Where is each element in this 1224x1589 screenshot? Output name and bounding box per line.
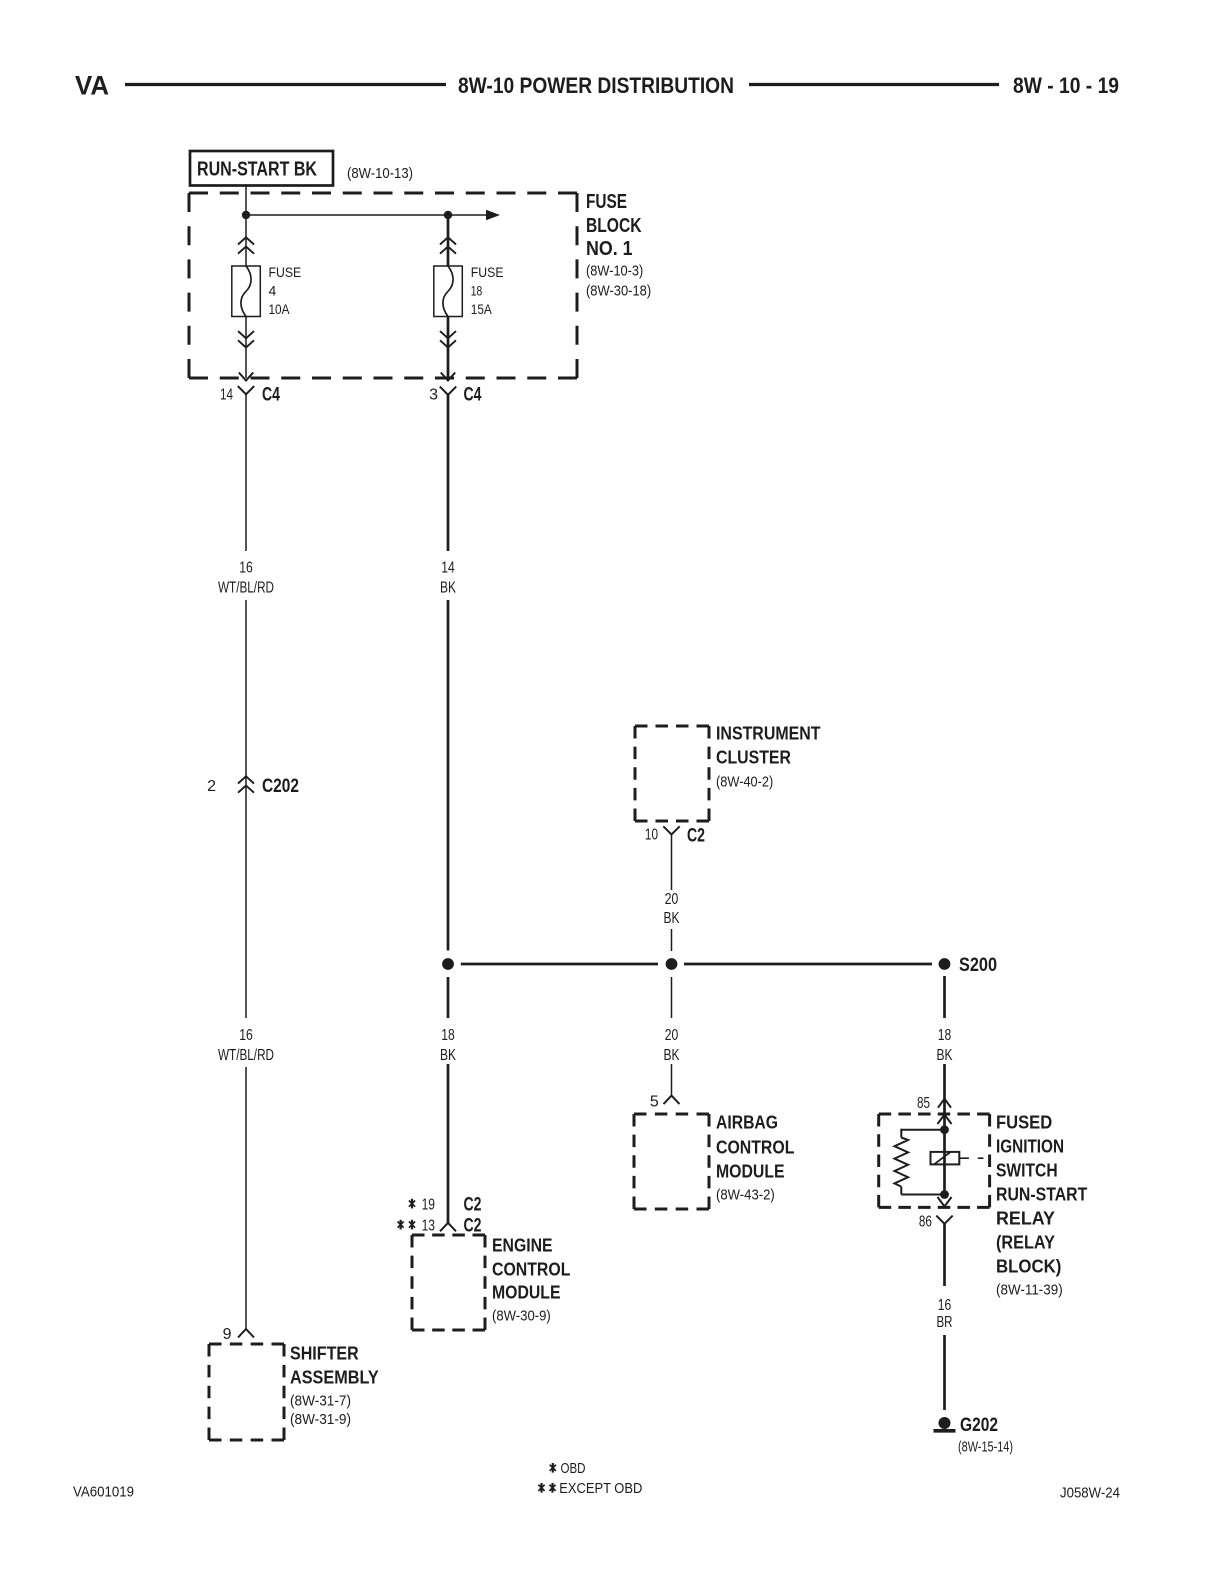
svg-text:S200: S200 xyxy=(959,955,997,976)
svg-text:(8W-10-13): (8W-10-13) xyxy=(347,165,413,182)
svg-text:14: 14 xyxy=(441,559,455,576)
svg-text:RELAY: RELAY xyxy=(996,1209,1055,1229)
svg-text:C4: C4 xyxy=(464,384,482,405)
svg-text:C4: C4 xyxy=(262,384,280,405)
svg-text:4: 4 xyxy=(269,283,277,299)
svg-text:14: 14 xyxy=(220,386,233,403)
svg-text:16: 16 xyxy=(938,1297,952,1314)
svg-text:BK: BK xyxy=(664,1047,680,1064)
svg-text:MODULE: MODULE xyxy=(492,1283,561,1303)
svg-text:(8W-43-2): (8W-43-2) xyxy=(716,1186,775,1203)
svg-text:8W-10 POWER DISTRIBUTION: 8W-10 POWER DISTRIBUTION xyxy=(458,73,734,98)
svg-text:FUSE: FUSE xyxy=(586,191,627,213)
svg-text:86: 86 xyxy=(919,1213,932,1230)
svg-text:(8W-15-14): (8W-15-14) xyxy=(958,1438,1013,1455)
svg-text:15A: 15A xyxy=(471,301,493,317)
svg-text:(8W-10-3): (8W-10-3) xyxy=(586,262,643,279)
svg-text:FUSED: FUSED xyxy=(996,1113,1052,1133)
svg-text:NO. 1: NO. 1 xyxy=(586,238,633,260)
svg-text:VA601019: VA601019 xyxy=(73,1483,134,1500)
svg-text:AIRBAG: AIRBAG xyxy=(716,1113,778,1133)
svg-text:8W - 10 - 19: 8W - 10 - 19 xyxy=(1013,73,1119,98)
svg-text:SHIFTER: SHIFTER xyxy=(290,1344,359,1364)
svg-text:ENGINE: ENGINE xyxy=(492,1236,553,1256)
svg-text:(8W-30-18): (8W-30-18) xyxy=(586,282,651,299)
svg-text:BLOCK): BLOCK) xyxy=(996,1257,1061,1277)
svg-text:(8W-31-7): (8W-31-7) xyxy=(290,1392,351,1409)
svg-text:BR: BR xyxy=(937,1314,953,1331)
svg-text:(8W-11-39): (8W-11-39) xyxy=(996,1281,1063,1298)
svg-text:20: 20 xyxy=(665,1027,679,1044)
svg-text:WT/BL/RD: WT/BL/RD xyxy=(218,1047,274,1064)
svg-text:EXCEPT OBD: EXCEPT OBD xyxy=(559,1480,642,1497)
svg-text:OBD: OBD xyxy=(561,1460,586,1477)
svg-text:C2: C2 xyxy=(464,1215,482,1236)
svg-text:ASSEMBLY: ASSEMBLY xyxy=(290,1368,379,1388)
svg-text:18: 18 xyxy=(441,1027,455,1044)
svg-text:BK: BK xyxy=(440,579,456,596)
svg-text:WT/BL/RD: WT/BL/RD xyxy=(218,579,274,596)
svg-text:(8W-31-9): (8W-31-9) xyxy=(290,1411,351,1428)
svg-text:C2: C2 xyxy=(464,1194,482,1215)
svg-text:BK: BK xyxy=(664,910,680,927)
svg-text:9: 9 xyxy=(223,1326,232,1343)
svg-text:BLOCK: BLOCK xyxy=(586,215,642,237)
svg-text:MODULE: MODULE xyxy=(716,1162,785,1182)
svg-text:RUN-START: RUN-START xyxy=(996,1185,1087,1205)
svg-text:BK: BK xyxy=(440,1047,456,1064)
svg-text:INSTRUMENT: INSTRUMENT xyxy=(716,724,821,744)
svg-text:CLUSTER: CLUSTER xyxy=(716,748,791,768)
svg-text:10: 10 xyxy=(645,826,658,843)
svg-text:RUN-START BK: RUN-START BK xyxy=(197,159,317,181)
svg-text:5: 5 xyxy=(650,1093,659,1110)
svg-text:J058W-24: J058W-24 xyxy=(1060,1484,1120,1501)
svg-text:CONTROL: CONTROL xyxy=(716,1138,794,1158)
svg-text:IGNITION: IGNITION xyxy=(996,1137,1064,1157)
svg-text:SWITCH: SWITCH xyxy=(996,1161,1058,1181)
svg-text:(8W-30-9): (8W-30-9) xyxy=(492,1307,551,1324)
svg-text:19: 19 xyxy=(422,1196,435,1213)
svg-text:(8W-40-2): (8W-40-2) xyxy=(716,773,773,790)
svg-text:10A: 10A xyxy=(269,301,291,317)
svg-text:VA: VA xyxy=(75,71,109,101)
svg-text:(RELAY: (RELAY xyxy=(996,1233,1055,1253)
svg-text:FUSE: FUSE xyxy=(471,264,504,280)
svg-text:3: 3 xyxy=(429,386,438,403)
svg-text:C2: C2 xyxy=(687,825,705,846)
svg-text:FUSE: FUSE xyxy=(269,264,302,280)
svg-text:16: 16 xyxy=(239,559,253,576)
svg-text:BK: BK xyxy=(937,1047,953,1064)
svg-text:16: 16 xyxy=(239,1027,253,1044)
svg-text:CONTROL: CONTROL xyxy=(492,1260,570,1280)
svg-text:C202: C202 xyxy=(262,776,299,797)
svg-text:13: 13 xyxy=(422,1217,435,1234)
svg-text:2: 2 xyxy=(207,778,216,795)
svg-text:20: 20 xyxy=(665,891,679,908)
svg-text:85: 85 xyxy=(917,1095,930,1112)
svg-text:18: 18 xyxy=(471,283,483,299)
svg-text:18: 18 xyxy=(938,1027,952,1044)
svg-text:G202: G202 xyxy=(960,1415,998,1436)
